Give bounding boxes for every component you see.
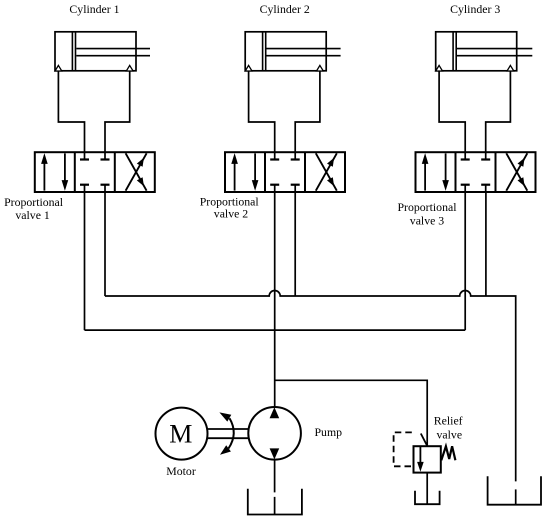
proportional valve 3 body (4/3 directional valve): [416, 152, 536, 192]
relief valve spring: [441, 446, 455, 460]
valve 1 right position crossed-flow arrows: [126, 153, 147, 190]
wire cylinder 1 port A to valve 1 port A: [58, 71, 84, 152]
proportional valve 2 body (4/3 directional valve): [225, 152, 345, 192]
valve 2 right position crossed-flow arrows: [316, 153, 337, 190]
svg-text:valve: valve: [437, 427, 463, 441]
cylinder 2 port A arrow: [245, 65, 252, 71]
wire cylinder 3 port A to valve 3 port A: [439, 71, 465, 152]
wire valve 2 P port down to pump riser: [274, 192, 276, 407]
cylinder 3 piston: [453, 32, 456, 71]
cylinder 2 port B arrow: [317, 65, 324, 71]
wire cylinder 3 port B to valve 3 port B: [486, 71, 511, 152]
cylinder 1 body: [55, 32, 136, 71]
cylinder 1 rod: [76, 49, 150, 56]
svg-text:Cylinder 2: Cylinder 2: [260, 2, 310, 16]
wire cylinder 2 port B to valve 2 port B: [295, 71, 320, 152]
wire cylinder 1 port B to valve 1 port B: [105, 71, 130, 152]
return bus (tank line) with crossover hops, to right tank: [105, 291, 516, 482]
relief valve pilot line (dashed): [394, 432, 412, 466]
valve 1 left position down-flow arrow: [62, 153, 69, 191]
relief valve drain line: [426, 473, 428, 505]
supply tank under pump: [248, 489, 302, 515]
pump circle: [248, 407, 301, 460]
relief valve internal flow arrow: [417, 447, 424, 472]
svg-text:Relief: Relief: [434, 414, 463, 428]
pump suction line to tank: [274, 460, 276, 515]
svg-text:M: M: [169, 420, 192, 449]
valve 1 center position blocked ports: [80, 152, 110, 192]
motor M1 circle: [156, 408, 208, 460]
cylinder 3 body: [436, 32, 517, 71]
wire cylinder 2 port A to valve 2 port A: [249, 71, 275, 152]
cylinder 1 port A arrow: [55, 65, 62, 71]
shaft rotation arrow: [219, 412, 233, 454]
valve 1 left position up-flow arrow: [41, 153, 48, 191]
wire valve 1 T port to return bus: [104, 192, 106, 296]
cylinder 2 piston: [263, 32, 266, 71]
svg-text:Cylinder 3: Cylinder 3: [450, 2, 500, 16]
cylinder 2 rod: [267, 49, 341, 56]
svg-text:valve 3: valve 3: [410, 213, 444, 227]
branch line pump to relief valve: [275, 380, 428, 446]
valve 2 left position up-flow arrow: [231, 153, 238, 191]
cylinder 1 port B arrow: [126, 65, 133, 71]
pump inlet triangle (down): [270, 448, 280, 459]
svg-text:Proportional: Proportional: [398, 200, 458, 214]
motor-pump shaft: [207, 429, 248, 438]
svg-text:valve 1: valve 1: [15, 208, 49, 222]
cylinder 2 body: [245, 32, 326, 71]
relief valve pilot tap diagonal: [421, 434, 427, 446]
valve 2 left position down-flow arrow: [252, 153, 259, 191]
relief valve body: [414, 446, 441, 472]
right tank: [488, 476, 541, 505]
cylinder 3 port B arrow: [507, 65, 514, 71]
valve 3 left position up-flow arrow: [422, 153, 429, 191]
wire valve 1 P port to pressure bus: [84, 192, 86, 330]
pump outlet triangle (up): [270, 407, 280, 418]
svg-text:Motor: Motor: [166, 464, 196, 478]
valve 3 center position blocked ports: [461, 152, 491, 192]
proportional valve 1 body (4/3 directional valve): [35, 152, 155, 192]
valve 3 left position down-flow arrow: [442, 153, 449, 191]
cylinder 3 port A arrow: [436, 65, 443, 71]
svg-text:Pump: Pump: [315, 425, 343, 439]
relief valve tank: [415, 491, 440, 504]
svg-text:valve 2: valve 2: [214, 206, 248, 220]
pressure bus: [85, 329, 466, 331]
return line lower segment into right tank: [515, 489, 517, 504]
wire valve 3 P port to pressure bus (crosses return bus): [464, 192, 466, 330]
cylinder 3 rod: [457, 49, 532, 56]
cylinder 1 piston: [72, 32, 75, 71]
valve 2 center position blocked ports: [270, 152, 300, 192]
wire valve 2 T port to return bus: [294, 192, 296, 296]
valve 3 right position crossed-flow arrows: [506, 153, 527, 190]
svg-text:Cylinder 1: Cylinder 1: [69, 2, 119, 16]
wire valve 3 T port to return bus: [485, 192, 487, 296]
